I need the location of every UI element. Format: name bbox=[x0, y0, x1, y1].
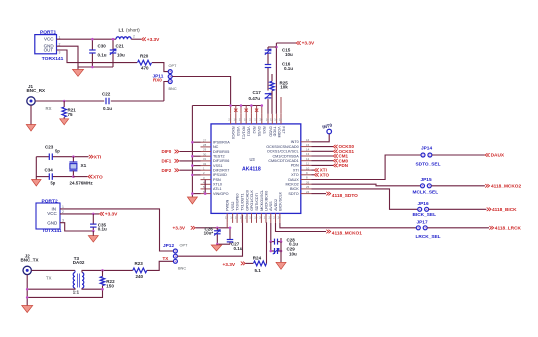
net 4118_BICK bbox=[487, 208, 491, 212]
wire JP11 common RX to chip bbox=[172, 77, 230, 106]
svg-text:NC: NC bbox=[213, 145, 219, 149]
svg-text:13: 13 bbox=[279, 118, 283, 122]
svg-text:DIF0: DIF0 bbox=[162, 149, 172, 154]
svg-text:RX0: RX0 bbox=[153, 78, 162, 83]
capacitor C22 bbox=[105, 98, 107, 105]
connector J1 BNC_RX bbox=[27, 97, 35, 105]
wire JP16 out bbox=[429, 208, 487, 210]
wire C22 to JP11 BNC bbox=[111, 100, 164, 102]
ground C26 C27 bbox=[216, 243, 218, 246]
wire bus to pin bbox=[192, 141, 200, 143]
svg-text:PDN: PDN bbox=[339, 163, 349, 168]
svg-text:23: 23 bbox=[273, 216, 277, 220]
svg-text:VSS1: VSS1 bbox=[213, 164, 223, 168]
svg-text:0.1u: 0.1u bbox=[98, 53, 107, 58]
net OCKS0 bbox=[312, 146, 334, 148]
net 4118_SDTO bbox=[312, 193, 327, 195]
svg-text:AK4118: AK4118 bbox=[242, 167, 261, 173]
svg-text:DIF1: DIF1 bbox=[162, 159, 172, 164]
svg-text:TX0/GPE0: TX0/GPE0 bbox=[236, 194, 240, 211]
bottom pin bbox=[265, 213, 267, 223]
top pin bbox=[230, 114, 232, 124]
wire C29 to ground bbox=[280, 242, 282, 263]
capacitor C16 bbox=[267, 63, 269, 65]
capacitor C21 polarized bbox=[112, 40, 114, 50]
svg-text:BICK/SCLK: BICK/SCLK bbox=[278, 191, 282, 210]
net PDN bbox=[312, 164, 334, 166]
capacitor C29 polarized bbox=[270, 242, 272, 251]
svg-text:VIN/GPO: VIN/GPO bbox=[213, 192, 229, 196]
svg-text:4118_SDTO: 4118_SDTO bbox=[332, 193, 358, 199]
svg-text:21: 21 bbox=[264, 216, 268, 220]
svg-text:25: 25 bbox=[306, 185, 310, 189]
bottom pin bbox=[260, 213, 262, 223]
svg-text:RX1/C1: RX1/C1 bbox=[241, 127, 245, 140]
ground J1 bbox=[30, 105, 32, 124]
svg-text:OPT: OPT bbox=[169, 64, 178, 68]
pin 11 PDN bbox=[301, 164, 312, 166]
svg-text:3: 3 bbox=[59, 51, 61, 55]
pin 6 VIN/GPO bbox=[201, 193, 212, 195]
wire JP12 common TX to chip bbox=[178, 215, 243, 256]
capacitor C23 bbox=[36, 156, 49, 158]
top pin bbox=[261, 114, 263, 124]
svg-text:OCKS0/CSN/CAD0: OCKS0/CSN/CAD0 bbox=[266, 145, 298, 149]
svg-text:+3.3V: +3.3V bbox=[173, 225, 186, 231]
wire BICK to JP16 bbox=[312, 189, 418, 209]
wire +3.3V rail down bbox=[275, 43, 277, 114]
svg-text:15: 15 bbox=[270, 118, 274, 122]
wire bus stub bbox=[230, 106, 232, 114]
svg-text:22: 22 bbox=[239, 118, 243, 122]
svg-text:SDTI/CDTI: SDTI/CDTI bbox=[255, 193, 259, 211]
bottom pin bbox=[226, 213, 228, 223]
top pin bbox=[280, 114, 282, 124]
pin 8 DAUX bbox=[301, 179, 312, 181]
svg-text:PDN: PDN bbox=[291, 164, 299, 168]
svg-text:+3.3V: +3.3V bbox=[223, 262, 236, 268]
power +3.3V top bbox=[276, 42, 296, 44]
svg-text:3: 3 bbox=[62, 219, 64, 223]
svg-text:16: 16 bbox=[266, 118, 270, 122]
pin 2 IPS1/0D bbox=[201, 174, 212, 176]
svg-text:22: 22 bbox=[269, 216, 273, 220]
svg-text:5.1: 5.1 bbox=[255, 268, 262, 273]
svg-text:BNC_RX: BNC_RX bbox=[27, 88, 46, 93]
bottom pin bbox=[275, 213, 277, 223]
wire JP11 BNC leg bbox=[164, 82, 168, 102]
svg-text:BNC: BNC bbox=[178, 267, 186, 271]
capacitor C34 bbox=[36, 176, 49, 178]
svg-text:VSS3: VSS3 bbox=[236, 127, 240, 136]
pin 28 NC bbox=[201, 146, 212, 148]
svg-text:13: 13 bbox=[225, 216, 229, 220]
jumper JP16 bbox=[418, 207, 422, 211]
top pin bbox=[276, 114, 278, 124]
svg-text:L1: L1 bbox=[119, 28, 125, 33]
ground C28 C29 bbox=[276, 262, 286, 269]
bottom pin bbox=[256, 213, 258, 223]
jumper JP17 bbox=[416, 226, 420, 230]
svg-text:14: 14 bbox=[306, 148, 310, 152]
crystal X1 24.576MHz bbox=[72, 157, 74, 162]
svg-text:IPS1/0D: IPS1/0D bbox=[213, 173, 227, 177]
svg-text:X1: X1 bbox=[81, 163, 87, 169]
capacitor C30 bbox=[91, 40, 93, 50]
svg-text:FILT: FILT bbox=[281, 127, 285, 135]
pin 1 DIF2/RX7 bbox=[201, 169, 212, 171]
svg-text:TVDD: TVDD bbox=[273, 127, 277, 137]
svg-text:RX0/C0: RX0/C0 bbox=[231, 127, 235, 140]
svg-text:15: 15 bbox=[306, 143, 310, 147]
pin 32 VSS1 bbox=[201, 165, 212, 167]
svg-text:0.47u: 0.47u bbox=[249, 96, 261, 101]
svg-text:16: 16 bbox=[240, 216, 244, 220]
svg-text:TX: TX bbox=[163, 256, 169, 261]
bottom pin bbox=[241, 213, 243, 223]
svg-text:RX3: RX3 bbox=[262, 127, 266, 134]
svg-text:TX1/OUT1: TX1/OUT1 bbox=[241, 194, 245, 211]
capacitor C27 bbox=[229, 228, 231, 240]
svg-text:2: 2 bbox=[133, 34, 135, 38]
capacitor C28 bbox=[270, 223, 272, 242]
svg-text:18: 18 bbox=[244, 118, 248, 122]
jumper JP11 bbox=[168, 70, 172, 74]
svg-text:10u: 10u bbox=[285, 52, 293, 57]
wire aux top stub bbox=[280, 97, 282, 114]
top pin bbox=[256, 114, 258, 124]
pin 16 INT0 bbox=[301, 141, 312, 143]
wire aux vertical bbox=[204, 180, 206, 194]
resistor R24 bbox=[246, 262, 254, 264]
wire JP12 BNC to R23 bbox=[147, 261, 173, 270]
svg-text:20: 20 bbox=[260, 118, 264, 122]
wire T3 primary bottom bbox=[27, 288, 75, 289]
svg-text:LRCK_SEL: LRCK_SEL bbox=[416, 234, 441, 240]
svg-text:26: 26 bbox=[306, 180, 310, 184]
net CM0 bbox=[312, 160, 334, 162]
svg-text:27: 27 bbox=[203, 138, 207, 142]
svg-text:4118_BICK: 4118_BICK bbox=[492, 207, 517, 213]
wire +3.3V to chip bbox=[196, 227, 231, 229]
wire GND pin to ground rail bbox=[57, 46, 114, 67]
svg-text:MCLK_SEL: MCLK_SEL bbox=[413, 189, 439, 195]
wire T3 secondary top bbox=[82, 270, 103, 272]
svg-text:30: 30 bbox=[203, 152, 207, 156]
svg-text:LRCK/BCK0: LRCK/BCK0 bbox=[264, 191, 268, 211]
svg-text:PORT1: PORT1 bbox=[40, 29, 56, 35]
svg-text:4118_MCKO2: 4118_MCKO2 bbox=[491, 184, 521, 190]
svg-text:16: 16 bbox=[306, 138, 310, 142]
svg-text:INT0: INT0 bbox=[291, 140, 299, 144]
svg-text:19: 19 bbox=[254, 216, 258, 220]
svg-text:TOTX141: TOTX141 bbox=[42, 228, 62, 233]
capacitor C35 bbox=[92, 213, 95, 216]
svg-text:VCOM: VCOM bbox=[277, 127, 281, 138]
svg-text:VDD1: VDD1 bbox=[247, 127, 251, 137]
pin 27 IPS0/RXA bbox=[201, 141, 212, 143]
svg-text:PSN: PSN bbox=[213, 178, 221, 182]
svg-text:VSS2: VSS2 bbox=[231, 202, 235, 211]
svg-text:+3.3V: +3.3V bbox=[105, 212, 118, 218]
ground crystal bbox=[32, 180, 42, 187]
pin 29 DIF0/RX5 bbox=[201, 151, 212, 153]
net 4118_MCKO2 bbox=[485, 184, 489, 188]
wire crystal left rail bbox=[35, 157, 37, 180]
net CM1 bbox=[312, 155, 334, 157]
wire bus to pin bbox=[192, 165, 200, 167]
no-connect marks bbox=[235, 106, 237, 114]
svg-text:OUT: OUT bbox=[44, 47, 54, 52]
svg-text:150: 150 bbox=[106, 284, 114, 289]
svg-text:DAUX: DAUX bbox=[288, 178, 299, 182]
svg-text:18: 18 bbox=[249, 216, 253, 220]
wire R20 to JP11 bbox=[152, 63, 168, 72]
optical receiver PORT1 TORX141 bbox=[35, 35, 57, 54]
svg-text:0.1u: 0.1u bbox=[103, 106, 112, 111]
svg-text:10: 10 bbox=[306, 166, 310, 170]
wire J1 to C22 bbox=[35, 100, 104, 102]
svg-text:C23: C23 bbox=[45, 144, 54, 149]
bottom pin bbox=[236, 213, 238, 223]
wire JP14 to DAUX bbox=[432, 154, 485, 156]
svg-text:SDTO: SDTO bbox=[288, 192, 298, 196]
svg-text:PORT2: PORT2 bbox=[42, 198, 58, 204]
pin 30 TEST2 bbox=[201, 155, 212, 157]
svg-text:12: 12 bbox=[306, 157, 310, 161]
pin 3 PSN bbox=[201, 179, 212, 181]
svg-text:MCKO1/SCL: MCKO1/SCL bbox=[260, 190, 264, 211]
svg-text:0.1u: 0.1u bbox=[98, 226, 107, 231]
pin 9 XTO bbox=[301, 174, 312, 176]
resistor R22 bbox=[102, 270, 104, 276]
top pin bbox=[271, 114, 273, 124]
svg-text:17: 17 bbox=[245, 216, 249, 220]
jumper JP12 bbox=[173, 249, 177, 253]
svg-text:C22: C22 bbox=[102, 92, 111, 97]
svg-text:+3.3V: +3.3V bbox=[147, 37, 160, 43]
wire bottom return rail bbox=[27, 289, 102, 297]
svg-text:XTI: XTI bbox=[94, 154, 101, 160]
optical transmitter PORT2 TOTX141 bbox=[36, 203, 60, 229]
ground J2 bbox=[26, 275, 28, 306]
svg-text:OCKS1/CCLK/SCL: OCKS1/CCLK/SCL bbox=[267, 150, 299, 154]
wire LRCK to JP17 bbox=[280, 223, 416, 228]
svg-text:XTO: XTO bbox=[291, 173, 299, 177]
svg-text:DVDD: DVDD bbox=[268, 127, 272, 138]
svg-text:GPO1/CCLK: GPO1/CCLK bbox=[250, 190, 254, 211]
svg-text:JP17: JP17 bbox=[417, 219, 428, 225]
wire VCC rail bbox=[57, 38, 117, 40]
svg-text:13: 13 bbox=[306, 152, 310, 156]
wire cap commons to ground bbox=[217, 243, 230, 245]
svg-text:14: 14 bbox=[274, 118, 278, 122]
net XTO chip bbox=[312, 174, 315, 176]
top pin bbox=[235, 114, 237, 124]
svg-text:R20: R20 bbox=[140, 54, 149, 59]
top pin bbox=[250, 114, 252, 124]
svg-text:DA02: DA02 bbox=[73, 260, 85, 265]
testpoint INT0 bbox=[327, 129, 332, 134]
svg-text:17: 17 bbox=[254, 118, 258, 122]
wire IN to JP12 OPT bbox=[60, 209, 173, 251]
wire bus stub bbox=[261, 106, 263, 114]
svg-text:JP16: JP16 bbox=[418, 201, 429, 207]
wire T3 secondary bottom bbox=[82, 288, 103, 289]
top pin bbox=[245, 114, 247, 124]
svg-text:240: 240 bbox=[136, 274, 144, 279]
svg-text:RX: RX bbox=[46, 106, 52, 111]
ground PORT2 bbox=[88, 236, 98, 243]
pin 15 OCKS0/CSN/CAD0 bbox=[301, 146, 312, 148]
bottom pin bbox=[246, 213, 248, 223]
capacitor C26 polarized bbox=[216, 227, 219, 230]
pin 24 SDTO bbox=[301, 193, 312, 195]
resistor R21 bbox=[63, 100, 66, 103]
svg-text:PWDN: PWDN bbox=[226, 199, 230, 210]
svg-text:C30: C30 bbox=[98, 44, 107, 49]
pin 26 MCKO2 bbox=[301, 183, 312, 185]
bottom pin bbox=[270, 213, 272, 223]
ic U3 AK4118 bbox=[211, 124, 301, 213]
svg-text:CM1/CDTI/SDA: CM1/CDTI/SDA bbox=[272, 154, 299, 158]
wire JP17 out bbox=[427, 227, 489, 229]
svg-text:23: 23 bbox=[228, 118, 232, 122]
net XTI bbox=[89, 155, 93, 159]
pin 13 CM1/CDTI/SDA bbox=[301, 155, 312, 157]
wire bus to pin bbox=[192, 193, 200, 195]
svg-text:21: 21 bbox=[249, 118, 253, 122]
svg-text:24: 24 bbox=[278, 216, 282, 220]
wire J2 to T3 bbox=[31, 269, 75, 271]
svg-text:19: 19 bbox=[234, 118, 238, 122]
svg-text:24: 24 bbox=[306, 190, 310, 194]
bottom pin bbox=[232, 213, 234, 223]
svg-text:ATL1: ATL1 bbox=[213, 187, 222, 191]
wire VCC to +3.3V bbox=[60, 213, 99, 215]
pin 14 OCKS1/CCLK/SCL bbox=[301, 150, 312, 152]
net 4118_MCKO1 bbox=[276, 223, 327, 232]
wire bus to pin bbox=[192, 174, 200, 176]
svg-text:XTO: XTO bbox=[93, 174, 103, 180]
net XTO bbox=[73, 176, 87, 178]
jumper JP14 bbox=[421, 153, 425, 157]
svg-text:XTO: XTO bbox=[320, 172, 330, 177]
svg-text:0.1u: 0.1u bbox=[234, 246, 243, 251]
net OCKS1 bbox=[312, 150, 334, 152]
svg-text:TORX141: TORX141 bbox=[42, 56, 64, 62]
svg-text:DIF0/RX5: DIF0/RX5 bbox=[213, 150, 229, 154]
jumper JP15 bbox=[421, 184, 425, 188]
capacitor C15 polarized bbox=[268, 46, 276, 48]
svg-text:14: 14 bbox=[230, 216, 234, 220]
svg-text:32: 32 bbox=[203, 162, 207, 166]
svg-text:C34: C34 bbox=[45, 167, 54, 172]
top pin bbox=[267, 114, 269, 124]
resistor R20 bbox=[138, 60, 152, 65]
wire INT0 to testpoint bbox=[312, 134, 330, 142]
svg-text:75: 75 bbox=[68, 112, 74, 117]
net 4118_LRCK bbox=[489, 226, 493, 230]
svg-text:2: 2 bbox=[62, 210, 64, 214]
pin 5 ATL1 bbox=[201, 188, 212, 190]
svg-text:MCKO2: MCKO2 bbox=[285, 183, 298, 187]
svg-text:AVDD2: AVDD2 bbox=[274, 199, 278, 211]
svg-text:TEST2: TEST2 bbox=[213, 155, 225, 159]
svg-text:C21: C21 bbox=[116, 44, 125, 49]
capacitor C17 bbox=[267, 99, 269, 114]
connector J2 BNC_TX bbox=[23, 266, 31, 274]
pin 12 CM0/CDTO/CAD1 bbox=[301, 160, 312, 162]
wire OUT to R20 bbox=[57, 50, 138, 63]
svg-text:10u: 10u bbox=[117, 53, 125, 58]
wire R24 to chip bbox=[265, 223, 268, 264]
svg-text:XTL0: XTL0 bbox=[213, 183, 222, 187]
svg-text:TX: TX bbox=[46, 276, 52, 281]
svg-text:BICK: BICK bbox=[290, 187, 299, 191]
pin 31 DIF1/RX6 bbox=[201, 160, 212, 162]
svg-text:SDTO_SEL: SDTO_SEL bbox=[416, 161, 441, 167]
svg-text:BNC: BNC bbox=[169, 87, 177, 91]
svg-text:U3: U3 bbox=[250, 157, 256, 162]
svg-text:AVSS: AVSS bbox=[269, 201, 273, 211]
svg-text:R24: R24 bbox=[253, 255, 262, 260]
power +3.3V bbox=[142, 37, 146, 41]
ground PORT1 bbox=[73, 69, 84, 76]
inductor L1 bbox=[116, 37, 131, 39]
ground left bus bbox=[187, 197, 197, 204]
svg-text:4118_MCKO1: 4118_MCKO1 bbox=[332, 230, 362, 236]
svg-text:1:1: 1:1 bbox=[73, 290, 80, 295]
svg-text:IPS0/RXA: IPS0/RXA bbox=[213, 141, 230, 145]
svg-text:JP14: JP14 bbox=[421, 146, 432, 152]
top pin bbox=[240, 114, 242, 124]
svg-text:CM0/CDTO/CAD1: CM0/CDTO/CAD1 bbox=[268, 159, 298, 163]
wire bus to pin bbox=[192, 155, 200, 157]
svg-text:15: 15 bbox=[235, 216, 239, 220]
svg-text:RX2: RX2 bbox=[252, 127, 256, 134]
svg-text:VCC: VCC bbox=[47, 211, 57, 216]
svg-text:GND: GND bbox=[47, 220, 58, 225]
svg-text:DVSS: DVSS bbox=[257, 127, 261, 137]
bottom pin bbox=[279, 213, 281, 223]
svg-text:DIF2: DIF2 bbox=[162, 168, 172, 173]
bottom pin bbox=[251, 213, 253, 223]
wire DAUX to JP14 bbox=[312, 155, 422, 180]
wire top bus bbox=[192, 105, 261, 107]
svg-text:10k: 10k bbox=[280, 85, 288, 90]
wire left ground bus bbox=[191, 106, 193, 198]
svg-text:28: 28 bbox=[203, 143, 207, 147]
svg-text:29: 29 bbox=[203, 148, 207, 152]
wire GND pin bbox=[60, 223, 93, 231]
svg-text:GPO0/CAD0: GPO0/CAD0 bbox=[245, 190, 249, 211]
svg-text:(short): (short) bbox=[126, 28, 140, 34]
resistor R23 bbox=[133, 268, 147, 273]
svg-text:31: 31 bbox=[203, 157, 207, 161]
wire bus stub bbox=[250, 106, 252, 114]
pin 25 BICK bbox=[301, 188, 312, 190]
svg-text:11: 11 bbox=[306, 162, 309, 166]
svg-text:4118_LRCK: 4118_LRCK bbox=[495, 226, 522, 232]
svg-text:1: 1 bbox=[62, 205, 64, 209]
svg-text:JP15: JP15 bbox=[421, 177, 432, 183]
wire XTI rail bbox=[73, 156, 88, 158]
svg-text:0.1u: 0.1u bbox=[284, 66, 293, 71]
svg-text:24.576MHz: 24.576MHz bbox=[70, 180, 94, 185]
svg-text:XTI: XTI bbox=[293, 168, 299, 172]
svg-text:R23: R23 bbox=[135, 261, 144, 266]
